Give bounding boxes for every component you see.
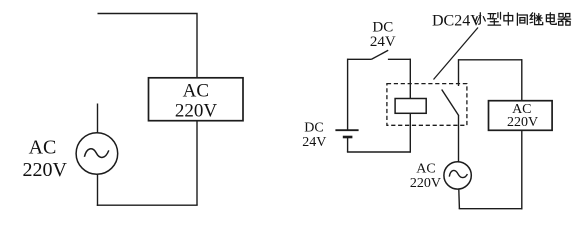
svg-text:24V: 24V	[302, 135, 326, 150]
svg-text:220V: 220V	[175, 101, 218, 122]
svg-text:220V: 220V	[410, 176, 441, 191]
svg-text:24V: 24V	[370, 34, 396, 50]
svg-text:AC: AC	[183, 80, 209, 101]
svg-text:DC: DC	[372, 19, 393, 35]
svg-text:AC: AC	[416, 162, 435, 177]
svg-text:DC: DC	[304, 121, 323, 136]
svg-text:220V: 220V	[507, 115, 538, 130]
svg-text:220V: 220V	[22, 159, 67, 181]
svg-text:AC: AC	[29, 136, 57, 158]
svg-text:DC24V: DC24V	[432, 12, 482, 29]
